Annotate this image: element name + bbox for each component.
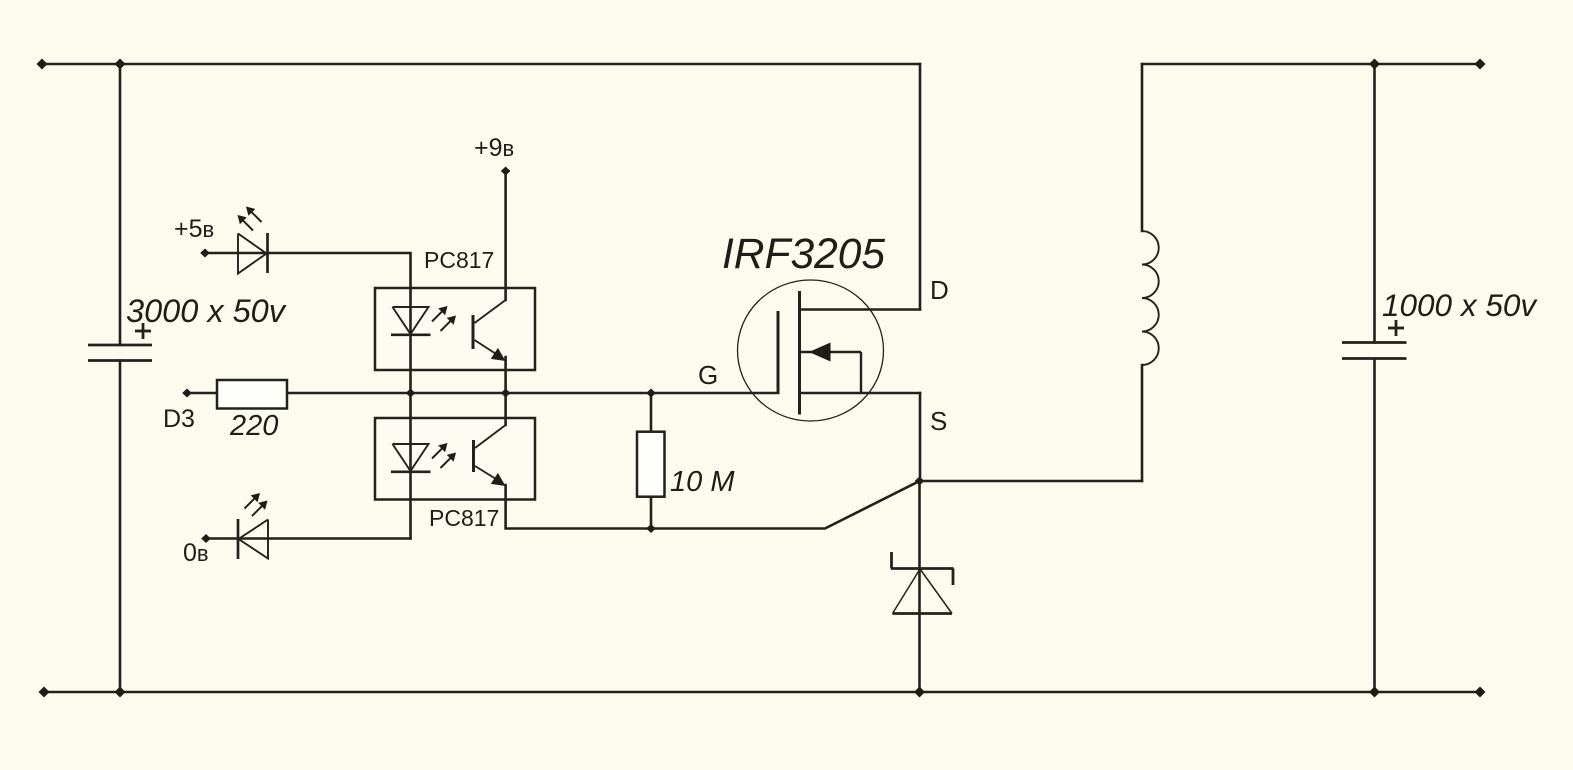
node top-right endpoint	[1475, 59, 1486, 70]
zener diode D1	[891, 552, 954, 614]
U2 phototransistor	[474, 425, 506, 482]
wire source vertical	[919, 393, 922, 481]
svg-text:IRF3205: IRF3205	[722, 231, 885, 278]
inductor L1	[1142, 231, 1159, 365]
wire opto2 emitter to bottom	[506, 481, 920, 529]
svg-text:G: G	[698, 360, 718, 390]
Q1 body connection	[800, 352, 862, 393]
wire bottom rail	[44, 691, 1480, 694]
optocoupler U2 PC817 body	[375, 418, 535, 500]
resistor R1 220	[217, 380, 287, 409]
svg-text:220: 220	[229, 410, 278, 442]
node 10M bottom junction	[646, 524, 656, 533]
svg-text:PC817: PC817	[424, 247, 494, 273]
wire zener lead	[918, 481, 921, 692]
wire top rail right	[1142, 63, 1480, 66]
wire opto emitter column	[504, 357, 507, 425]
wire drain vertical	[919, 64, 922, 310]
node bottom-left endpoint	[39, 687, 50, 698]
wire 10M lower lead	[650, 497, 653, 529]
svg-text:PC817: PC817	[429, 505, 499, 531]
LED D5 indicator +5v	[238, 233, 268, 274]
wire 10M upper lead	[650, 393, 653, 432]
svg-text:S: S	[930, 406, 947, 436]
capacitor C2 1000x50v	[1342, 320, 1407, 359]
U1 light arrows	[432, 306, 456, 331]
LED D6 indicator 0v	[238, 519, 268, 559]
wire left vertical branch upper	[119, 64, 122, 345]
svg-text:+5в: +5в	[174, 215, 214, 243]
Q1 body arrow	[809, 343, 831, 362]
wire inductor upper lead	[1141, 64, 1144, 231]
node 10M top junction	[646, 389, 656, 398]
node gate-net junction at opto emitter column	[501, 389, 511, 398]
U1 phototransistor	[473, 300, 506, 357]
node top right-cap junction	[1369, 59, 1380, 70]
wire right cap upper lead	[1373, 64, 1376, 343]
LED D5 light arrows	[238, 207, 262, 231]
wire right cap lower lead	[1373, 359, 1376, 693]
wire gate net	[287, 392, 778, 395]
node source junction	[915, 477, 925, 486]
node bottom-left junction	[115, 687, 126, 698]
U1 LED	[391, 307, 431, 335]
svg-text:0в: 0в	[183, 539, 209, 567]
svg-text:10 M: 10 M	[670, 466, 735, 498]
node top-left junction	[115, 59, 126, 70]
node bottom right-cap junction	[1369, 687, 1380, 698]
wire top rail left	[42, 63, 920, 66]
wire inductor lower lead	[1141, 365, 1144, 481]
resistor R2 10M	[637, 432, 665, 497]
svg-text:1000 x 50v: 1000 x 50v	[1382, 287, 1538, 323]
U2 LED	[391, 444, 431, 472]
node bottom-right endpoint	[1475, 687, 1486, 698]
wire mosfet drain line	[800, 308, 921, 311]
node +9v terminal	[501, 167, 511, 176]
node gate-net junction at opto LED column	[406, 389, 416, 398]
svg-text:D: D	[930, 275, 949, 305]
svg-text:D3: D3	[163, 405, 195, 433]
node bottom zener junction	[914, 687, 925, 698]
svg-text:+9в: +9в	[474, 134, 514, 162]
wire source net horizontal	[920, 480, 1143, 483]
optocoupler U1 PC817 body	[375, 288, 535, 370]
wire mosfet source line	[800, 392, 921, 395]
node 0v terminal	[201, 534, 211, 543]
Q1 gate bar	[777, 311, 780, 394]
node +5v terminal	[200, 249, 210, 258]
node top-left endpoint	[37, 59, 48, 70]
node D3 terminal	[182, 389, 192, 398]
wire 0v LED horizontal	[206, 537, 411, 540]
Q1 channel bar	[798, 291, 801, 415]
wire opto LED column	[409, 288, 412, 539]
capacitor C1 3000x50v	[88, 323, 152, 361]
wire left vertical branch lower	[119, 361, 122, 693]
svg-text:3000 x 50v: 3000 x 50v	[126, 293, 287, 329]
wire +9v vertical	[504, 171, 507, 300]
LED D6 light arrows	[245, 493, 268, 516]
wire +5v to opto1	[205, 253, 411, 288]
wire D3 to resistor	[187, 392, 217, 395]
U2 light arrows	[432, 443, 456, 468]
